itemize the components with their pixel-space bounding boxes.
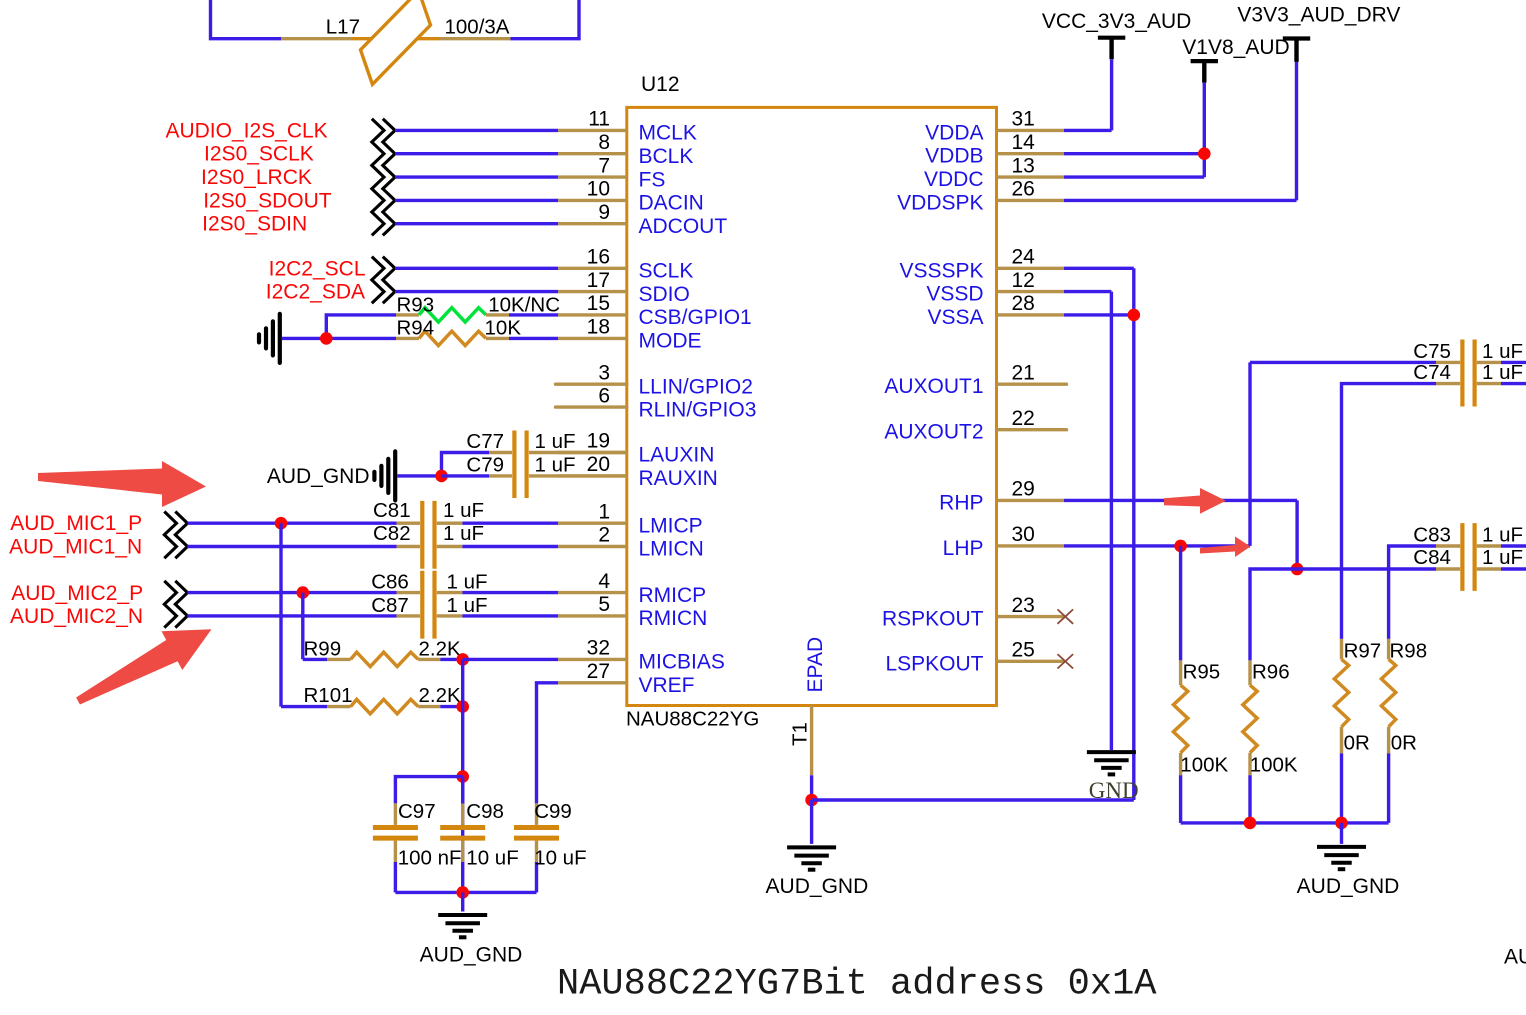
net label AUD_MIC2_N — [10, 605, 143, 628]
junction C97 branch node — [456, 770, 469, 783]
capacitor C86/C87 left stubs — [397, 593, 421, 616]
ground AUD_GND at EPAD — [787, 847, 836, 869]
pin 11 MCLK stub — [558, 129, 627, 132]
pin name VSSSPK — [899, 259, 983, 282]
svg-text:RMICN: RMICN — [639, 607, 708, 630]
value C84 1 uF — [1482, 546, 1523, 569]
pin stub L17 pin2 — [440, 37, 511, 40]
value C86 1 uF — [447, 571, 488, 594]
pin stub L17 pin1 — [281, 37, 352, 40]
svg-text:2.2K: 2.2K — [419, 684, 461, 707]
pin number 31 — [1012, 108, 1035, 131]
capacitor C81 C82 plates — [422, 501, 434, 569]
annotation arrow at LHP — [1200, 537, 1251, 558]
label C77 — [466, 430, 504, 453]
wire ground to R94 — [282, 337, 396, 340]
refdes U12 — [641, 73, 680, 96]
title text NAU88C22YG 7bit address — [557, 964, 1157, 1006]
label C97 — [398, 800, 436, 823]
junction VSSA node — [1128, 309, 1141, 322]
junction R97 rail node — [1335, 817, 1348, 830]
annotation arrow at RAUXIN — [38, 461, 206, 507]
pin name LLIN/GPIO2 — [639, 375, 753, 398]
bus entry I2S group — [372, 119, 395, 236]
wire CSB/GPIO1 left segment — [326, 315, 396, 339]
power V3V3_AUD_DRV — [1283, 39, 1310, 62]
pin name LMICN — [639, 538, 704, 561]
svg-text:FS: FS — [639, 168, 666, 191]
pin number 28 — [1012, 292, 1035, 315]
pin 32 MICBIAS stub — [558, 658, 627, 661]
pin name CSB/GPIO1 — [639, 306, 752, 329]
wire junction up to C77 — [442, 453, 490, 476]
svg-text:VDDB: VDDB — [925, 145, 983, 168]
svg-text:1 uF: 1 uF — [535, 430, 576, 453]
svg-text:MODE: MODE — [639, 330, 702, 353]
svg-text:C84: C84 — [1413, 546, 1451, 569]
wire L17 net left vertical — [211, 0, 282, 39]
svg-text:27: 27 — [587, 660, 610, 683]
label R96 — [1252, 660, 1290, 683]
svg-text:24: 24 — [1012, 246, 1036, 269]
label R101 — [304, 684, 353, 707]
label C98 — [466, 800, 504, 823]
pin 7 FS stub — [558, 175, 627, 178]
value C77 1 uF — [535, 430, 576, 453]
pin name MICBIAS — [639, 651, 725, 674]
pin name VDDA — [925, 121, 983, 144]
wire C87 to pin 5 — [462, 614, 558, 617]
wire to pin 9 ADCOUT — [395, 222, 558, 225]
wire C84 out — [1501, 567, 1526, 570]
capacitor C86/C87 right stubs — [437, 593, 463, 616]
pin number 25 — [1012, 639, 1035, 662]
wire rail to AUD_GND — [1340, 823, 1343, 844]
pin 15 CSB/GPIO1 stub — [558, 313, 627, 316]
svg-text:C83: C83 — [1413, 524, 1451, 547]
inductor/fuse L17 body — [352, 0, 440, 84]
label C87 — [371, 594, 409, 617]
wire VSSD to GND — [1064, 292, 1111, 750]
pin number 13 — [1012, 154, 1035, 177]
pin name LMICP — [639, 514, 703, 537]
junction R96 rail node — [1244, 817, 1257, 830]
svg-text:EPAD: EPAD — [804, 637, 827, 693]
junction MIC2_P to R99 column — [297, 586, 310, 599]
svg-text:1 uF: 1 uF — [1482, 524, 1523, 547]
wire C84 row to RHP junction — [1297, 567, 1436, 570]
value R97 0R — [1344, 732, 1370, 755]
wire VSSA to VSS column — [1064, 313, 1134, 316]
pin 5 RMICN stub — [558, 614, 627, 617]
svg-text:5: 5 — [598, 593, 610, 616]
pin 19 LAUXIN stub — [558, 451, 627, 454]
pin number 21 — [1012, 361, 1035, 384]
wire R99 to MICBIAS junction — [440, 658, 462, 661]
net label AUD_MIC2_P — [11, 582, 143, 605]
pin number 26 — [1012, 178, 1035, 201]
svg-text:DACIN: DACIN — [639, 192, 704, 215]
junction EPAD node — [805, 794, 818, 807]
pin number 16 — [587, 246, 610, 269]
value R101 2.2K — [419, 684, 461, 707]
pin 1 LMICP stub — [558, 522, 627, 525]
svg-text:AUD_GND: AUD_GND — [267, 465, 370, 488]
svg-text:LLIN/GPIO2: LLIN/GPIO2 — [639, 375, 753, 398]
svg-text:C82: C82 — [373, 522, 411, 545]
svg-text:VDDA: VDDA — [925, 121, 983, 144]
pin 27 VREF stub — [558, 681, 627, 684]
value R96 100K — [1250, 753, 1298, 776]
net label AUDIO_I2S_CLK — [165, 119, 327, 142]
capacitor C77 C79 plates — [514, 431, 526, 499]
label AUD_GND below C98 — [420, 944, 523, 967]
resistor R96 — [1243, 660, 1257, 823]
svg-text:100 nF: 100 nF — [398, 847, 462, 870]
svg-text:MCLK: MCLK — [639, 122, 697, 145]
svg-text:AUD: AUD — [1504, 946, 1526, 969]
pin 31 VDDA stub — [997, 129, 1065, 132]
pin name VSSA — [927, 306, 983, 329]
svg-text:R99: R99 — [304, 637, 342, 660]
label C81 — [373, 499, 411, 522]
svg-text:28: 28 — [1012, 292, 1035, 315]
svg-text:NAU88C22YG: NAU88C22YG — [626, 708, 759, 731]
wire C98 top lead — [461, 777, 464, 804]
label R98 — [1390, 639, 1428, 662]
wire to pin 17 SDIO — [395, 290, 558, 293]
label C82 — [373, 522, 411, 545]
wire C86 to pin 4 — [462, 591, 558, 594]
svg-text:VSSA: VSSA — [927, 306, 983, 329]
svg-text:RMICP: RMICP — [639, 584, 707, 607]
svg-text:7: 7 — [598, 154, 610, 177]
wire C75 row — [1250, 361, 1436, 364]
svg-text:3: 3 — [598, 361, 610, 384]
svg-text:29: 29 — [1012, 478, 1035, 501]
value C83 1 uF — [1482, 524, 1523, 547]
pin number 14 — [1012, 131, 1036, 154]
wire EPAD to ground — [810, 800, 813, 844]
value R98 0R — [1391, 732, 1417, 755]
label R93 — [397, 293, 435, 316]
svg-text:I2S0_LRCK: I2S0_LRCK — [201, 166, 312, 189]
svg-text:CSB/GPIO1: CSB/GPIO1 — [639, 306, 752, 329]
svg-text:RHP: RHP — [939, 491, 983, 514]
wire AUD_MIC1_N — [188, 545, 397, 548]
pin 20 RAUXIN stub — [558, 474, 627, 477]
wire EPAD down — [810, 775, 813, 800]
svg-text:AUXOUT1: AUXOUT1 — [884, 375, 983, 398]
pin 29 RHP stub — [997, 499, 1065, 502]
svg-text:VCC_3V3_AUD: VCC_3V3_AUD — [1042, 10, 1191, 33]
label AUD_GND right — [1297, 875, 1400, 898]
value C98 10 uF — [466, 847, 518, 870]
pin name MODE — [639, 330, 702, 353]
label GND — [1089, 778, 1139, 803]
svg-text:LAUXIN: LAUXIN — [639, 444, 715, 467]
svg-text:C87: C87 — [371, 594, 409, 617]
pin 23 RSPKOUT stub — [997, 615, 1065, 618]
pin 18 MODE stub — [558, 337, 627, 340]
label L17 — [326, 16, 360, 39]
pin name VDDB — [925, 145, 983, 168]
svg-text:19: 19 — [587, 430, 610, 453]
pin number 24 — [1012, 246, 1036, 269]
svg-text:C99: C99 — [534, 800, 572, 823]
svg-text:31: 31 — [1012, 108, 1035, 131]
label C75 — [1413, 340, 1451, 363]
svg-text:30: 30 — [1012, 523, 1035, 546]
junction MIC1_P to R101 column — [275, 517, 288, 530]
capacitor C75/C74 right stubs — [1477, 362, 1501, 383]
wire MIC2 column corner to R99 — [303, 658, 327, 661]
wire C75 out — [1501, 361, 1526, 364]
wire R101 to column — [440, 705, 462, 708]
capacitor C83 C84 left stubs — [1436, 546, 1460, 569]
pin number 5 — [598, 593, 610, 616]
label AUD_GND at EPAD — [766, 875, 869, 898]
value C82 1 uF — [443, 522, 484, 545]
wire VDDA to VCC_3V3_AUD — [1064, 59, 1112, 130]
svg-text:26: 26 — [1012, 178, 1035, 201]
resistor R93 — [396, 308, 509, 322]
svg-text:C97: C97 — [398, 800, 436, 823]
svg-text:GND: GND — [1089, 778, 1139, 803]
svg-text:VREF: VREF — [639, 674, 695, 697]
label C83 — [1413, 524, 1451, 547]
value R99 2.2K — [419, 637, 461, 660]
power VCC_3V3_AUD — [1098, 38, 1125, 60]
svg-text:32: 32 — [587, 637, 610, 660]
svg-text:AUD_MIC1_P: AUD_MIC1_P — [10, 512, 142, 535]
svg-text:VDDC: VDDC — [924, 168, 984, 191]
svg-text:BCLK: BCLK — [639, 145, 694, 168]
svg-text:1 uF: 1 uF — [535, 454, 576, 477]
svg-text:10K: 10K — [485, 317, 522, 340]
pin number 10 — [587, 178, 610, 201]
pin 12 VSSD stub — [997, 290, 1065, 293]
svg-text:I2S0_SDOUT: I2S0_SDOUT — [203, 189, 332, 212]
svg-text:1 uF: 1 uF — [443, 522, 484, 545]
svg-text:10 uF: 10 uF — [534, 847, 586, 870]
wire C74 out — [1501, 382, 1526, 385]
pin name SCLK — [639, 260, 694, 283]
svg-text:C98: C98 — [466, 800, 504, 823]
net label I2S0_SDOUT — [203, 189, 332, 212]
svg-text:RLIN/GPIO3: RLIN/GPIO3 — [639, 398, 757, 421]
svg-text:LHP: LHP — [943, 537, 984, 560]
wire RHP junction to R96 column — [1250, 569, 1297, 660]
svg-text:LSPKOUT: LSPKOUT — [885, 652, 983, 675]
pin name ADCOUT — [639, 215, 728, 238]
svg-text:1 uF: 1 uF — [443, 499, 484, 522]
wire VSSSPK to VSS column — [1064, 268, 1134, 800]
pin number 1 — [598, 500, 610, 523]
pin number 7 — [598, 154, 610, 177]
wire AUD_MIC1_P — [188, 522, 397, 525]
svg-text:1 uF: 1 uF — [447, 571, 488, 594]
svg-text:AUD_GND: AUD_GND — [766, 875, 869, 898]
resistor R97 — [1334, 639, 1348, 823]
svg-text:R95: R95 — [1183, 660, 1221, 683]
ground AUD_GND at RAUXIN — [374, 451, 395, 500]
net label I2C2_SCL — [269, 257, 366, 280]
wire C97 branch top — [395, 777, 462, 804]
pin name LHP — [943, 537, 984, 560]
pin number 8 — [598, 131, 610, 154]
svg-text:C81: C81 — [373, 499, 411, 522]
svg-text:I2C2_SCL: I2C2_SCL — [269, 257, 366, 280]
ground AUD_GND at MODE — [259, 314, 280, 363]
net label VCC_3V3_AUD — [1042, 10, 1191, 33]
svg-text:1: 1 — [598, 500, 610, 523]
wire resistor bottom rail — [1181, 821, 1389, 824]
wire junction to C79 — [442, 474, 490, 477]
svg-text:0R: 0R — [1391, 732, 1417, 755]
wire to pin 10 DACIN — [395, 199, 558, 202]
svg-text:U12: U12 — [641, 73, 680, 96]
wire R93 to pin 15 — [509, 313, 558, 316]
svg-text:I2S0_SCLK: I2S0_SCLK — [204, 143, 314, 166]
pin 16 SCLK stub — [558, 267, 627, 270]
pin name LAUXIN — [639, 444, 715, 467]
pin 22 AUXOUT2 stub — [997, 428, 1067, 431]
svg-text:SDIO: SDIO — [639, 283, 690, 306]
pin 3 LLIN/GPIO2 stub — [556, 383, 627, 386]
wire LHP — [1064, 544, 1250, 547]
svg-text:R94: R94 — [397, 317, 435, 340]
svg-text:25: 25 — [1012, 639, 1035, 662]
wire VDDB to V1V8_AUD — [1064, 152, 1204, 155]
svg-text:16: 16 — [587, 246, 610, 269]
label C99 — [534, 800, 572, 823]
junction MICBIAS node — [456, 653, 469, 666]
pin name EPAD — [804, 637, 827, 693]
svg-text:0R: 0R — [1344, 732, 1370, 755]
svg-text:21: 21 — [1012, 361, 1035, 384]
svg-text:13: 13 — [1012, 154, 1035, 177]
svg-text:100K: 100K — [1250, 753, 1298, 776]
svg-text:C74: C74 — [1413, 361, 1451, 384]
bus entry MIC1 group — [164, 512, 187, 559]
annotation arrow at RHP — [1164, 488, 1226, 514]
pin 21 AUXOUT1 stub — [997, 383, 1067, 386]
junction LHP to R95 column — [1174, 540, 1187, 553]
pin name AUXOUT1 — [884, 375, 983, 398]
svg-text:9: 9 — [598, 201, 610, 224]
pin name DACIN — [639, 192, 704, 215]
svg-text:4: 4 — [598, 570, 610, 593]
svg-text:23: 23 — [1012, 594, 1035, 617]
no-connect X LSPKOUT — [1058, 654, 1074, 668]
pin number 30 — [1012, 523, 1035, 546]
label C74 — [1413, 361, 1451, 384]
capacitor C77/C79 left stubs — [489, 453, 512, 476]
capacitor C86 C87 plates — [422, 571, 434, 639]
svg-text:10: 10 — [587, 178, 610, 201]
pin name VREF — [639, 674, 695, 697]
value 10K — [485, 317, 522, 340]
pin number 23 — [1012, 594, 1035, 617]
pin number 2 — [598, 524, 610, 547]
pin number 17 — [587, 269, 610, 292]
ground AUD_GND below C98 — [438, 915, 487, 937]
net label I2C2_SDA — [266, 281, 365, 304]
wire C97 bottom lead — [394, 862, 397, 892]
pin name RSPKOUT — [882, 608, 984, 631]
pin 28 VSSA stub — [997, 313, 1065, 316]
value 10K/NC — [488, 293, 560, 316]
svg-text:AUD_MIC2_N: AUD_MIC2_N — [10, 605, 143, 628]
wire C75 column — [1248, 362, 1251, 546]
wire MIC1 column corner to R101 — [281, 705, 327, 708]
IC U12 outline — [627, 107, 997, 705]
label C86 — [371, 571, 409, 594]
value C87 1 uF — [447, 594, 488, 617]
junction bottom rail node — [456, 886, 469, 899]
svg-text:R96: R96 — [1252, 660, 1290, 683]
wire EPAD to VSS column — [812, 798, 1134, 801]
capacitor C75 C74 left stubs — [1436, 362, 1460, 383]
capacitor C81/C82 left stubs — [397, 523, 421, 546]
wire to pin 8 BCLK — [395, 152, 558, 155]
pin name MCLK — [639, 122, 697, 145]
bus entry MIC2 group — [164, 581, 187, 628]
svg-text:LMICP: LMICP — [639, 514, 703, 537]
net label I2S0_LRCK — [201, 166, 312, 189]
pin 13 VDDC stub — [997, 175, 1065, 178]
capacitor C83 C84 plates — [1462, 523, 1474, 591]
wire C83 row and column to R98 — [1389, 546, 1436, 639]
pin name SDIO — [639, 283, 690, 306]
svg-text:AUD_GND: AUD_GND — [1297, 875, 1400, 898]
svg-text:10 uF: 10 uF — [466, 847, 518, 870]
net label V3V3_AUD_DRV — [1237, 3, 1400, 26]
svg-text:LMICN: LMICN — [639, 538, 704, 561]
svg-text:11: 11 — [588, 108, 610, 131]
value C74 1 uF — [1482, 361, 1523, 384]
svg-text:MICBIAS: MICBIAS — [639, 651, 725, 674]
pin 4 RMICP stub — [558, 591, 627, 594]
svg-text:AUD_MIC2_P: AUD_MIC2_P — [11, 582, 143, 605]
wire C81 to pin 1 — [462, 522, 558, 525]
svg-text:V1V8_AUD: V1V8_AUD — [1182, 36, 1289, 59]
svg-text:AUD_MIC1_N: AUD_MIC1_N — [9, 536, 142, 559]
svg-text:1 uF: 1 uF — [1482, 546, 1523, 569]
wire C83 out — [1501, 544, 1526, 547]
capacitor C81/C82 right stubs — [437, 523, 463, 546]
pin number 11 — [588, 108, 610, 131]
svg-text:I2C2_SDA: I2C2_SDA — [266, 281, 365, 304]
pin 10 DACIN stub — [558, 199, 627, 202]
svg-text:NAU88C22YG7Bit address 0x1A: NAU88C22YG7Bit address 0x1A — [557, 964, 1157, 1006]
value C99 10 uF — [534, 847, 586, 870]
wire MICBIAS column down — [461, 659, 464, 892]
svg-text:R101: R101 — [304, 684, 353, 707]
svg-text:C86: C86 — [371, 571, 409, 594]
svg-text:100K: 100K — [1180, 753, 1228, 776]
pin number 4 — [598, 570, 610, 593]
capacitor C99 — [514, 803, 559, 862]
value C75 1 uF — [1482, 340, 1523, 363]
pin name RHP — [939, 491, 983, 514]
svg-text:C77: C77 — [466, 430, 504, 453]
pin name RAUXIN — [639, 467, 718, 490]
svg-text:10K/NC: 10K/NC — [488, 293, 560, 316]
wire rail to ground — [461, 892, 464, 911]
svg-text:L17: L17 — [326, 16, 360, 39]
